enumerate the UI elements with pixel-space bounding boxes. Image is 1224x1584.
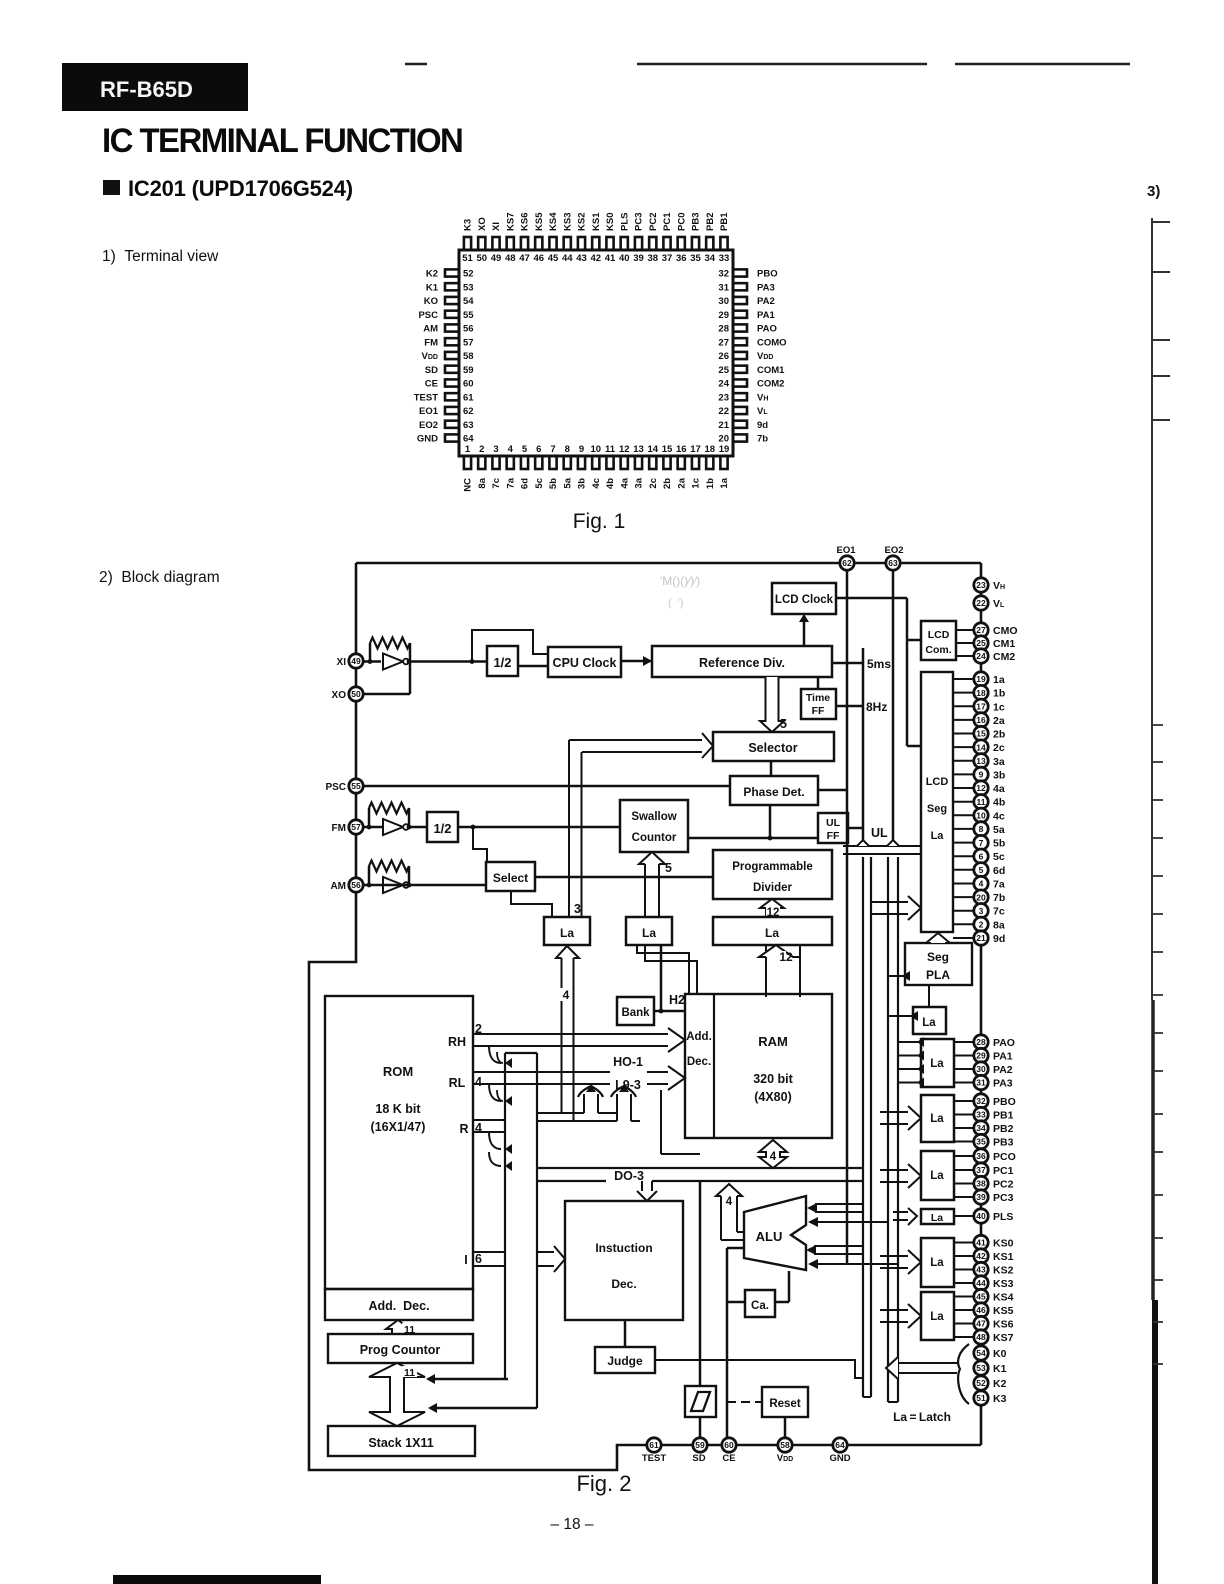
svg-text:38: 38 xyxy=(647,253,658,264)
svg-text:KS7: KS7 xyxy=(993,1332,1014,1344)
svg-text:5b: 5b xyxy=(993,838,1005,850)
pin 51 K3 xyxy=(464,237,471,250)
up arrow into L bus 1 xyxy=(583,1094,585,1113)
svg-text:20: 20 xyxy=(718,434,729,445)
svg-text:XI: XI xyxy=(491,222,502,231)
pin 40 PLS xyxy=(621,237,628,250)
svg-text:Fig. 2: Fig. 2 xyxy=(576,1471,631,1496)
svg-text:7a: 7a xyxy=(993,879,1005,891)
pin 30 PA2 xyxy=(733,297,747,304)
svg-text:19: 19 xyxy=(719,444,730,455)
wire ALU input channel 3 xyxy=(814,1245,863,1247)
block Reset xyxy=(762,1387,808,1417)
pin 4a 12 xyxy=(974,781,988,795)
bus bar 1 xyxy=(862,857,864,1397)
pin 56 AM xyxy=(445,324,459,331)
node XI output wire xyxy=(409,660,487,663)
hollow arrow bar to Instruction Dec xyxy=(537,1251,554,1253)
svg-text:48: 48 xyxy=(976,1332,986,1342)
wire LCD com branch xyxy=(907,639,921,642)
svg-text:33: 33 xyxy=(976,1110,986,1120)
svg-text:5b: 5b xyxy=(548,478,559,489)
svg-text:42: 42 xyxy=(976,1251,986,1261)
svg-text:24: 24 xyxy=(718,379,729,390)
svg-text:52: 52 xyxy=(463,269,474,280)
svg-text:PLS: PLS xyxy=(619,213,630,231)
wire stack return 2 xyxy=(434,1407,537,1410)
svg-text:62: 62 xyxy=(842,558,852,568)
pin 19 1a xyxy=(720,456,727,469)
svg-text:PSC: PSC xyxy=(325,782,346,793)
svg-text:4: 4 xyxy=(770,1151,777,1163)
svg-text:EO2: EO2 xyxy=(884,545,903,556)
pin 64 GND xyxy=(445,434,459,441)
svg-text:2b: 2b xyxy=(662,478,673,489)
pin 50 XO xyxy=(478,237,485,250)
svg-text:54: 54 xyxy=(976,1348,986,1358)
svg-text:3: 3 xyxy=(493,444,498,455)
pin K1 53 xyxy=(974,1361,988,1375)
svg-text:FM: FM xyxy=(332,823,346,834)
svg-text:3b: 3b xyxy=(577,478,588,489)
svg-text:Judge: Judge xyxy=(607,1354,643,1368)
svg-text:50: 50 xyxy=(351,689,361,699)
pin 7 5b xyxy=(549,456,556,469)
svg-text:Bank: Bank xyxy=(621,1007,650,1019)
wire Reference Div to 5ms node xyxy=(832,662,863,665)
hollow arrow bus to La KS0-3 xyxy=(880,1255,908,1257)
pin 18 1b xyxy=(706,456,713,469)
svg-text:GND: GND xyxy=(829,1453,850,1464)
svg-text:GND: GND xyxy=(417,434,438,445)
wire Reference Div to Time FF xyxy=(817,677,820,689)
svg-text:5ms: 5ms xyxy=(867,657,891,671)
svg-text:KO: KO xyxy=(424,296,438,307)
svg-text:51: 51 xyxy=(976,1393,986,1403)
pin 25 COM1 xyxy=(733,366,747,373)
svg-text:33: 33 xyxy=(719,253,730,264)
hollow arrow bus into LCD Seg La xyxy=(871,901,908,903)
wire Bank to Add Dec xyxy=(654,1010,685,1013)
svg-text:UL: UL xyxy=(826,817,841,829)
pin PSC 55 xyxy=(349,779,363,793)
svg-text:30: 30 xyxy=(976,1064,986,1074)
svg-text:61: 61 xyxy=(463,392,474,403)
hook RL to bar xyxy=(489,1084,501,1101)
svg-text:La: La xyxy=(930,1113,944,1125)
block Stack xyxy=(328,1426,475,1456)
block ROM xyxy=(325,996,473,1289)
svg-text:8Hz: 8Hz xyxy=(866,700,887,714)
wire Reference Div to LCD Clock arrow xyxy=(803,619,806,646)
svg-text:49: 49 xyxy=(351,656,361,666)
pin 17 1c xyxy=(692,456,699,469)
svg-text:EO2: EO2 xyxy=(419,420,438,431)
svg-text:44: 44 xyxy=(976,1278,986,1288)
hollow bidirectional arrow Prog Counter / Stack, 11 bits xyxy=(369,1363,425,1426)
pin XI 49 xyxy=(349,654,363,668)
svg-text:(16X1/47): (16X1/47) xyxy=(371,1120,426,1134)
svg-text:4: 4 xyxy=(726,1196,733,1208)
up arrow into L bus 2 xyxy=(616,1094,618,1121)
svg-text:7b: 7b xyxy=(757,434,768,445)
pin 35 PB3 xyxy=(692,237,699,250)
svg-text:3: 3 xyxy=(979,906,984,916)
svg-text:Add.: Add. xyxy=(686,1031,712,1043)
svg-text:PC2: PC2 xyxy=(993,1179,1014,1191)
svg-text:64: 64 xyxy=(463,434,474,445)
pin PLS 40 xyxy=(974,1209,988,1223)
wires La KS4-7 to pins xyxy=(954,1296,974,1298)
latch La2 (5-bit swallow) xyxy=(626,917,672,945)
svg-text:Instuction: Instuction xyxy=(595,1241,652,1255)
svg-text:2a: 2a xyxy=(993,715,1005,727)
svg-text:35: 35 xyxy=(690,253,701,264)
svg-text:8: 8 xyxy=(979,824,984,834)
svg-text:4: 4 xyxy=(979,879,984,889)
block Reference Div xyxy=(652,646,832,677)
svg-text:31: 31 xyxy=(976,1078,986,1088)
hollow arrow bus to La KS4-7 xyxy=(880,1309,908,1311)
hollow arrow bus to La PLS xyxy=(893,1211,908,1213)
svg-text:PLS: PLS xyxy=(993,1211,1013,1223)
svg-text:18 K bit: 18 K bit xyxy=(375,1102,421,1116)
pin 38 PC2 xyxy=(649,237,656,250)
svg-text:Divider: Divider xyxy=(753,882,793,894)
pin 53 K1 xyxy=(445,283,459,290)
wire CE to Reset xyxy=(727,1401,762,1403)
pin 24 COM2 xyxy=(733,379,747,386)
svg-text:34: 34 xyxy=(976,1123,986,1133)
wire EO1 vertical xyxy=(846,570,849,1264)
svg-text:Fig. 1: Fig. 1 xyxy=(573,510,626,533)
pin 3b 9 xyxy=(974,767,988,781)
pin 49 XI xyxy=(492,237,499,250)
svg-text:9: 9 xyxy=(979,770,984,780)
svg-text:KS2: KS2 xyxy=(577,213,588,231)
svg-text:32: 32 xyxy=(976,1096,986,1106)
svg-text:5: 5 xyxy=(979,865,984,875)
svg-text:KS2: KS2 xyxy=(993,1265,1014,1277)
svg-text:Selector: Selector xyxy=(748,741,797,755)
bottom left black bar artifact xyxy=(113,1575,321,1584)
svg-text:4: 4 xyxy=(563,988,570,1002)
svg-text:16: 16 xyxy=(676,444,687,455)
block Seg PLA xyxy=(905,943,972,985)
wires LCD Seg La to segment pins xyxy=(953,678,974,680)
svg-text:57: 57 xyxy=(351,822,361,832)
block LCD Seg La xyxy=(921,672,953,932)
svg-text:22: 22 xyxy=(976,598,986,608)
svg-text:22: 22 xyxy=(718,406,729,417)
pin 63 EO2 xyxy=(445,421,459,428)
svg-text:63: 63 xyxy=(888,558,898,568)
svg-text:27: 27 xyxy=(976,625,986,635)
svg-text:HO-1: HO-1 xyxy=(613,1055,643,1069)
svg-text:21: 21 xyxy=(718,420,729,431)
svg-text:13: 13 xyxy=(976,756,986,766)
svg-text:1b: 1b xyxy=(705,478,716,489)
svg-text:21: 21 xyxy=(976,933,986,943)
pin 11 4b xyxy=(606,456,613,469)
svg-text:La: La xyxy=(922,1017,936,1029)
svg-text:PC3: PC3 xyxy=(993,1192,1014,1204)
pin PB2 34 xyxy=(974,1121,988,1135)
svg-text:29: 29 xyxy=(976,1051,986,1061)
svg-text:47: 47 xyxy=(519,253,530,264)
svg-text:SD: SD xyxy=(692,1453,705,1464)
pin 1 NC xyxy=(464,456,471,469)
wires La PC to pins xyxy=(954,1155,974,1157)
svg-text:Programmable: Programmable xyxy=(732,861,813,873)
svg-text:28: 28 xyxy=(976,1037,986,1047)
svg-text:7a: 7a xyxy=(505,477,516,488)
svg-text:XI: XI xyxy=(337,657,347,668)
hollow arrow K inputs xyxy=(898,1362,957,1364)
wire Phase Det to UL row xyxy=(769,805,772,838)
feedback resistor FM xyxy=(368,808,371,827)
pin XO 50 xyxy=(349,687,363,701)
svg-text:1/2: 1/2 xyxy=(433,821,451,836)
pin 33 PB1 xyxy=(720,237,727,250)
svg-text:XO: XO xyxy=(332,690,347,701)
svg-text:1c: 1c xyxy=(993,701,1005,713)
wire Judge output row xyxy=(655,1360,863,1378)
svg-text:R: R xyxy=(459,1122,468,1136)
svg-text:PA3: PA3 xyxy=(757,282,775,293)
pin 43 KS2 xyxy=(578,237,585,250)
svg-text:14: 14 xyxy=(647,444,658,455)
svg-text:53: 53 xyxy=(976,1363,986,1373)
wire FM to divider xyxy=(363,826,383,829)
hollow arrow into La1 bottom xyxy=(556,946,579,958)
pin 5c 6 xyxy=(974,849,988,863)
pin GND 64 xyxy=(833,1438,847,1452)
pin 2c 14 xyxy=(974,740,988,754)
pin 37 PC1 xyxy=(663,237,670,250)
svg-text:H2: H2 xyxy=(669,993,685,1007)
svg-text:5: 5 xyxy=(665,861,672,875)
svg-text:Add. Dec.: Add. Dec. xyxy=(368,1299,429,1313)
svg-text:44: 44 xyxy=(562,253,573,264)
svg-text:Reference Div.: Reference Div. xyxy=(699,656,785,670)
block Select xyxy=(486,862,535,891)
svg-text:59: 59 xyxy=(463,365,474,376)
svg-text:39: 39 xyxy=(633,253,644,264)
svg-text:63: 63 xyxy=(463,420,474,431)
svg-text:XO: XO xyxy=(477,217,488,231)
svg-text:Ca.: Ca. xyxy=(751,1300,769,1312)
pin 1b 18 xyxy=(974,685,988,699)
svg-text:KS3: KS3 xyxy=(562,213,573,231)
svg-text:RAM: RAM xyxy=(758,1034,788,1049)
wire LCD clock row xyxy=(836,597,907,600)
pin 14 2c xyxy=(649,456,656,469)
svg-text:5a: 5a xyxy=(562,477,573,488)
divider block 1/2 (CPU) xyxy=(487,646,518,676)
pin 7b 20 xyxy=(974,890,988,904)
svg-text:3): 3) xyxy=(1147,183,1160,200)
pin 47 KS6 xyxy=(521,237,528,250)
svg-text:ROM: ROM xyxy=(383,1064,413,1079)
pin 4 7a xyxy=(507,456,514,469)
page edge tick marks xyxy=(1152,221,1170,223)
svg-text:Time: Time xyxy=(806,692,830,704)
pin CM2 24 xyxy=(974,649,988,663)
svg-text:PA3: PA3 xyxy=(993,1078,1013,1090)
svg-text:3b: 3b xyxy=(993,769,1005,781)
wire latch bus vertical pair xyxy=(568,740,570,917)
pin 42 KS1 xyxy=(592,237,599,250)
pin 32 PB0 xyxy=(733,269,747,276)
svg-text:6: 6 xyxy=(979,851,984,861)
pin 6 5c xyxy=(535,456,542,469)
inverter FM xyxy=(383,819,403,835)
svg-text:Select: Select xyxy=(493,871,528,885)
svg-text:CM1: CM1 xyxy=(993,638,1015,650)
svg-text:KS7: KS7 xyxy=(505,213,516,231)
svg-text:RH: RH xyxy=(448,1035,466,1049)
svg-text:6d: 6d xyxy=(993,865,1005,877)
channel to L-bus up arrows xyxy=(537,1112,584,1114)
svg-text:KS0: KS0 xyxy=(993,1238,1014,1250)
svg-text:43: 43 xyxy=(576,253,587,264)
pin K2 52 xyxy=(974,1376,988,1390)
svg-text:1a: 1a xyxy=(993,674,1005,686)
svg-text:La: La xyxy=(765,926,779,940)
svg-text:62: 62 xyxy=(463,406,474,417)
svg-text:4b: 4b xyxy=(993,797,1005,809)
pin CE 60 xyxy=(722,1438,736,1452)
svg-text:9d: 9d xyxy=(757,420,768,431)
svg-text:47: 47 xyxy=(976,1319,986,1329)
pin 5b 7 xyxy=(974,835,988,849)
hollow arrow bus to La PB xyxy=(880,1111,908,1113)
pin 4c 10 xyxy=(974,808,988,822)
svg-text:1a: 1a xyxy=(719,477,730,488)
top edge dashed scan line xyxy=(405,63,1140,66)
schmitt trigger symbol xyxy=(685,1386,716,1417)
pin CMO 27 xyxy=(974,623,988,637)
svg-text:PC2: PC2 xyxy=(648,213,659,231)
pin 29 PA1 xyxy=(733,311,747,318)
svg-text:53: 53 xyxy=(463,282,474,293)
svg-text:Seg: Seg xyxy=(927,950,949,964)
svg-text:7c: 7c xyxy=(993,906,1005,918)
wire FM divided to Select xyxy=(473,827,487,862)
block Judge xyxy=(595,1347,655,1373)
svg-text:Reset: Reset xyxy=(769,1398,800,1410)
block RAM with Add Dec xyxy=(685,994,832,1138)
pin 46 KS5 xyxy=(535,237,542,250)
svg-text:3a: 3a xyxy=(634,477,645,488)
svg-text:14: 14 xyxy=(976,742,986,752)
pin 59 SD xyxy=(445,366,459,373)
svg-text:2c: 2c xyxy=(993,742,1005,754)
svg-text:PB3: PB3 xyxy=(993,1137,1014,1149)
latch La KS0-3 xyxy=(921,1238,954,1287)
pin 8a 2 xyxy=(974,917,988,931)
svg-text:PC1: PC1 xyxy=(993,1165,1014,1177)
svg-text:L9-3: L9-3 xyxy=(615,1078,641,1092)
svg-text:PSC: PSC xyxy=(418,310,438,321)
wire VDD to Reset xyxy=(784,1417,787,1445)
page edge vertical line xyxy=(1151,218,1153,1000)
bus L9-3 to RAM Add Dec xyxy=(473,1071,610,1073)
svg-text:KS6: KS6 xyxy=(520,213,531,231)
svg-text:18: 18 xyxy=(976,688,986,698)
pin PB1 33 xyxy=(974,1107,988,1121)
svg-text:55: 55 xyxy=(351,781,361,791)
svg-text:La: La xyxy=(930,1311,944,1323)
svg-text:ALU: ALU xyxy=(756,1229,783,1244)
svg-text:39: 39 xyxy=(976,1192,986,1202)
pin 39 PC3 xyxy=(635,237,642,250)
pin 58 VDD xyxy=(445,352,459,359)
wire ALU input channel 2 xyxy=(815,1221,888,1223)
block CPU Clock xyxy=(548,647,621,677)
svg-text:FF: FF xyxy=(812,705,825,717)
pin 23 VH xyxy=(733,393,747,400)
pin 21 9d xyxy=(733,421,747,428)
svg-text:LCD: LCD xyxy=(926,776,949,788)
wire FM divided to Swallow Counter xyxy=(458,826,620,829)
fig2 outer boundary xyxy=(356,562,981,565)
pin 61 TEST xyxy=(445,393,459,400)
IC201 package body xyxy=(459,250,733,456)
svg-text:46: 46 xyxy=(533,253,544,264)
svg-text:FM: FM xyxy=(424,337,438,348)
pin 28 PA0 xyxy=(733,324,747,331)
wire La PLS to pin xyxy=(954,1215,974,1217)
svg-text:SD: SD xyxy=(425,365,438,376)
block ALU xyxy=(744,1196,806,1270)
block UL FF xyxy=(818,813,848,843)
svg-text:PB3: PB3 xyxy=(691,213,702,231)
svg-text:RF-B65D: RF-B65D xyxy=(100,77,193,102)
bus bar 2 xyxy=(887,857,889,1402)
hollow arrow Add Dec / Prog Counter, 11 bits xyxy=(386,1320,410,1334)
svg-text:AM: AM xyxy=(330,881,346,892)
latch La3 xyxy=(913,1007,946,1034)
wire Seg PLA to latch La3 xyxy=(928,985,930,1007)
svg-text:K2: K2 xyxy=(993,1378,1007,1390)
wire bypass loop over 1/2 divider xyxy=(472,630,548,662)
pin 57 FM xyxy=(445,338,459,345)
svg-text:24: 24 xyxy=(976,651,986,661)
svg-text:41: 41 xyxy=(605,253,616,264)
hollow arrow Seg PLA to LCD Seg La xyxy=(926,933,950,943)
block Phase Det xyxy=(730,776,818,805)
pin EO2 63 xyxy=(886,556,900,570)
pin K3 51 xyxy=(974,1391,988,1405)
svg-text:LCD Clock: LCD Clock xyxy=(775,594,834,606)
pin 8 5a xyxy=(564,456,571,469)
svg-text:La = Latch: La = Latch xyxy=(893,1410,951,1424)
block Selector xyxy=(713,732,834,761)
svg-text:PB2: PB2 xyxy=(705,213,716,231)
wire EO2 vertical xyxy=(892,570,895,846)
svg-text:Seg: Seg xyxy=(927,803,947,815)
svg-text:Com.: Com. xyxy=(925,644,951,656)
svg-text:IC TERMINAL FUNCTION: IC TERMINAL FUNCTION xyxy=(102,123,462,161)
pin AM 56 xyxy=(349,878,363,892)
svg-text:15: 15 xyxy=(662,444,673,455)
pin 6d 5 xyxy=(974,863,988,877)
svg-text:7: 7 xyxy=(550,444,555,455)
pin KS2 43 xyxy=(974,1262,988,1276)
latch La PC group xyxy=(921,1151,954,1200)
